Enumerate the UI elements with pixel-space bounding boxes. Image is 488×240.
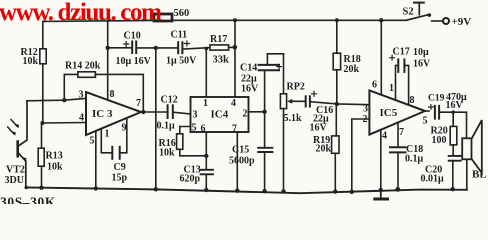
svg-text:1: 1 bbox=[203, 98, 208, 109]
node ground rail VT2 bbox=[25, 186, 29, 190]
label C18 0.1u bbox=[405, 144, 424, 165]
svg-text:0.1μ: 0.1μ bbox=[157, 121, 176, 132]
wire pin3 input bbox=[27, 98, 86, 100]
node pin8/C10 bbox=[106, 46, 110, 50]
label C10 bbox=[116, 31, 152, 68]
svg-text:IC5: IC5 bbox=[380, 107, 398, 119]
svg-text:1: 1 bbox=[389, 83, 394, 94]
node ground rail IC3 pin5 bbox=[94, 186, 98, 190]
svg-text:C19: C19 bbox=[428, 94, 445, 104]
label R19 20k bbox=[313, 135, 332, 155]
wire node to R13 bbox=[41, 123, 43, 148]
svg-text:0.01μ: 0.01μ bbox=[421, 174, 445, 185]
label C16 22u 16V bbox=[310, 105, 334, 134]
svg-text:3: 3 bbox=[363, 104, 368, 115]
svg-text:5.1k: 5.1k bbox=[284, 113, 303, 124]
resistor R18 bbox=[333, 53, 340, 70]
svg-text:10μ 16V: 10μ 16V bbox=[116, 56, 152, 67]
svg-text:16V: 16V bbox=[241, 84, 259, 95]
wire IC4 pin5 to R16 bbox=[180, 127, 191, 134]
svg-text:9: 9 bbox=[122, 123, 127, 134]
node ground rail RP2 bbox=[281, 189, 285, 193]
svg-text:7: 7 bbox=[136, 98, 141, 109]
wire R14 feedback left leg bbox=[64, 74, 78, 100]
svg-text:7: 7 bbox=[232, 124, 237, 135]
node R20 tap bbox=[451, 110, 455, 114]
resistor R12 bbox=[40, 49, 46, 64]
wire IC4 pin1 up bbox=[205, 48, 207, 97]
wire IC4 pin7 to ground rail bbox=[236, 132, 238, 191]
svg-text:100: 100 bbox=[432, 135, 447, 146]
svg-text:15p: 15p bbox=[112, 173, 128, 184]
svg-text:560: 560 bbox=[174, 8, 190, 19]
resistor R17 bbox=[210, 45, 229, 50]
label R17 33k bbox=[210, 34, 229, 66]
wire C13 to ground rail bbox=[205, 174, 207, 190]
svg-text:16V: 16V bbox=[310, 123, 328, 134]
svg-text:20k: 20k bbox=[316, 144, 332, 155]
svg-text:16V: 16V bbox=[446, 100, 464, 111]
svg-text:RP2: RP2 bbox=[287, 82, 305, 93]
svg-text:1: 1 bbox=[105, 129, 110, 140]
label R18 20k bbox=[344, 54, 361, 75]
terminal +9V bbox=[443, 18, 449, 24]
wire +9V drop to IC4 pin4 bbox=[234, 20, 236, 97]
wire R14 right leg to output bbox=[95, 74, 143, 112]
wire mid vertical supply-to-ground bbox=[155, 48, 157, 189]
svg-text:S2: S2 bbox=[403, 6, 414, 17]
capacitor C18 bbox=[390, 147, 406, 152]
wire IC5 pin2 to ground bbox=[352, 119, 370, 192]
label C17 10u 16V bbox=[393, 47, 432, 70]
resistor R20 bbox=[450, 126, 457, 144]
svg-text:10k: 10k bbox=[23, 56, 39, 67]
label C19 470u 16V bbox=[428, 92, 467, 111]
svg-text:C11: C11 bbox=[171, 30, 188, 41]
svg-text:33k: 33k bbox=[213, 55, 230, 66]
wire IC4 pin2 to C14/C15 node bbox=[249, 111, 265, 113]
node top rail at x235 bbox=[233, 18, 237, 22]
node ground rail C18 bbox=[395, 187, 400, 192]
label R14 20k bbox=[65, 61, 101, 72]
wire R18 to pin3 node bbox=[336, 70, 338, 104]
svg-text:5: 5 bbox=[192, 123, 197, 134]
label C12 0.1u bbox=[157, 95, 178, 132]
node pin4/ground bbox=[379, 188, 383, 192]
node ground rail R19 bbox=[333, 189, 337, 193]
resistor R13 bbox=[38, 148, 44, 166]
svg-text:C17: C17 bbox=[393, 47, 410, 58]
wire IC4 pin6 down bbox=[205, 132, 207, 170]
node pin2/C14/C15 bbox=[262, 110, 266, 114]
wire R20 to C20 bbox=[452, 145, 454, 156]
phototransistor VT2 bbox=[8, 101, 27, 188]
label R16 10k bbox=[159, 138, 176, 159]
wire C12 to IC4 pin3 bbox=[174, 112, 191, 114]
wire left drop to R12 bbox=[42, 21, 44, 48]
svg-text:1μ 50V: 1μ 50V bbox=[166, 56, 197, 67]
wire C11 to R17 bbox=[183, 48, 210, 49]
resistor R16 bbox=[177, 134, 183, 150]
capacitor C15 bbox=[258, 112, 272, 191]
svg-text:30S–30K: 30S–30K bbox=[0, 194, 56, 204]
node ground rail IC4 pin7 bbox=[235, 189, 239, 193]
wire jog C14 to RP2 bbox=[267, 53, 283, 55]
svg-text:C12: C12 bbox=[161, 95, 178, 106]
wire R12 bottom to pin4 node bbox=[42, 64, 44, 123]
svg-text:C9: C9 bbox=[114, 162, 126, 173]
svg-text:5: 5 bbox=[423, 116, 428, 127]
wire R13 to ground rail bbox=[41, 166, 43, 188]
label VT2 3DU bbox=[5, 165, 25, 187]
capacitor C14 bbox=[259, 54, 282, 112]
svg-text:5: 5 bbox=[90, 136, 95, 147]
capacitor C12 bbox=[168, 105, 173, 118]
capacitor C9 with pin1/pin9 leads bbox=[101, 118, 127, 158]
capacitor C11 bbox=[178, 41, 189, 53]
svg-text:8: 8 bbox=[110, 89, 115, 100]
wire C10 to C11 bbox=[137, 47, 177, 49]
wire C20 to ground rail bbox=[452, 161, 454, 190]
svg-text:4: 4 bbox=[231, 98, 236, 109]
label RP2 5.1k bbox=[284, 82, 305, 125]
wire +9V branch to IC5 pin6 bbox=[380, 20, 382, 95]
svg-text:4: 4 bbox=[382, 131, 387, 142]
capacitor C20 bbox=[449, 156, 461, 161]
svg-text:www. dziuu. com: www. dziuu. com bbox=[0, 0, 162, 26]
speaker BL bbox=[462, 120, 482, 190]
svg-text:3: 3 bbox=[193, 110, 198, 121]
wire IC5 output bbox=[425, 110, 429, 112]
capacitor C10 bbox=[124, 42, 137, 54]
svg-text:10k: 10k bbox=[47, 162, 63, 173]
svg-text:C14: C14 bbox=[240, 63, 257, 74]
node R16/pin6 bbox=[204, 154, 208, 158]
wire top rail right segment bbox=[172, 19, 407, 21]
wire IC3 output to C12 bbox=[141, 111, 167, 113]
wire top rail to R18 bbox=[336, 20, 338, 53]
wire ground rail bbox=[26, 187, 467, 193]
op-amp IC3 bbox=[86, 92, 141, 135]
capacitor C16 bbox=[306, 91, 317, 106]
resistor R15 560 bbox=[154, 14, 172, 21]
wire C18 to ground rail bbox=[397, 152, 399, 189]
svg-text:8: 8 bbox=[410, 95, 415, 106]
resistor R14 bbox=[78, 72, 96, 78]
svg-text:10k: 10k bbox=[159, 148, 175, 159]
wire IC3 pin8 supply drop bbox=[107, 21, 109, 100]
IC IC4 bbox=[191, 97, 249, 132]
svg-text:+9V: +9V bbox=[452, 16, 472, 28]
node ground rail C20 bbox=[451, 187, 455, 191]
svg-text:5600p: 5600p bbox=[229, 156, 255, 167]
svg-text:IC 3: IC 3 bbox=[92, 108, 113, 120]
node ground rail C15 bbox=[262, 189, 266, 193]
svg-text:IC4: IC4 bbox=[211, 109, 229, 121]
svg-text:BL: BL bbox=[472, 169, 487, 181]
capacitor C19 bbox=[429, 105, 440, 119]
wire R19 to ground rail bbox=[334, 153, 336, 191]
wire C16 to IC5 pin3 bbox=[311, 102, 369, 105]
node ground rail mid vertical bbox=[154, 187, 158, 191]
capacitor C17 pins1-8 bbox=[390, 55, 409, 105]
svg-text:R17: R17 bbox=[210, 34, 227, 45]
svg-text:R13: R13 bbox=[46, 151, 63, 162]
wire IC3 pin5 to ground rail bbox=[95, 131, 97, 189]
svg-text:C10: C10 bbox=[124, 31, 141, 42]
capacitor C13 bbox=[201, 170, 213, 175]
ground bbox=[375, 190, 388, 199]
node ground rail R13 bbox=[39, 186, 43, 190]
label R20 100 bbox=[431, 126, 448, 147]
wire pin3 node to R19 bbox=[335, 104, 337, 136]
wire R20 tap down bbox=[452, 112, 454, 126]
svg-text:6: 6 bbox=[201, 124, 206, 135]
op-amp IC5 bbox=[369, 90, 425, 134]
node R12/R13/pin4 bbox=[41, 121, 45, 125]
node ground rail IC5 pin2 bbox=[350, 190, 354, 194]
svg-text:4: 4 bbox=[79, 113, 84, 124]
wire IC5 pin4 to ground rail bbox=[380, 131, 382, 190]
label R13 10k bbox=[46, 151, 64, 173]
label C13 620p bbox=[180, 165, 201, 185]
svg-text:620p: 620p bbox=[180, 174, 201, 185]
wire R16 bottom to pin6 line bbox=[180, 149, 207, 156]
svg-text:3DU: 3DU bbox=[5, 175, 24, 186]
node IC4 pin1 tap bbox=[205, 47, 209, 51]
label R12 10k bbox=[21, 47, 39, 67]
label C14 22u 16V bbox=[240, 63, 259, 95]
wire supply node to C10 bbox=[108, 47, 132, 49]
potentiometer RP2 bbox=[280, 54, 305, 192]
node R18/R19/pin3 bbox=[335, 102, 339, 106]
node top rail at x337 bbox=[335, 18, 339, 22]
node mid vertical top bbox=[154, 46, 158, 50]
svg-text:6: 6 bbox=[372, 80, 377, 91]
svg-text:0.1μ: 0.1μ bbox=[405, 154, 424, 165]
node R17/+9V drop bbox=[233, 45, 238, 50]
wire R17 to +9V drop bbox=[229, 46, 235, 48]
label C11 bbox=[166, 30, 197, 67]
label C15 5600p bbox=[229, 145, 255, 167]
node ground rail C13 bbox=[204, 188, 208, 192]
svg-text:2: 2 bbox=[243, 109, 248, 120]
label C9 15p bbox=[112, 162, 128, 184]
label C20 0.01u bbox=[421, 165, 445, 185]
wire top rail left segment bbox=[43, 20, 154, 23]
resistor R19 bbox=[332, 136, 339, 153]
svg-text:7: 7 bbox=[399, 127, 404, 138]
node pin3/feedback bbox=[62, 98, 66, 102]
svg-text:16V: 16V bbox=[413, 59, 431, 70]
svg-text:R14 20k: R14 20k bbox=[65, 61, 101, 72]
switch S2 bbox=[407, 3, 443, 21]
svg-text:10μ: 10μ bbox=[413, 47, 429, 58]
svg-text:C15: C15 bbox=[232, 145, 249, 156]
svg-text:VT2: VT2 bbox=[6, 165, 25, 176]
wire pin4 input bbox=[43, 122, 87, 125]
node output/feedback bbox=[141, 110, 145, 114]
node top rail at x381 bbox=[379, 18, 383, 22]
svg-text:3: 3 bbox=[79, 90, 84, 101]
wire IC5 pin7 to C18 bbox=[397, 123, 399, 148]
svg-text:20k: 20k bbox=[344, 64, 360, 75]
wire C19 to speaker top bbox=[440, 112, 466, 138]
